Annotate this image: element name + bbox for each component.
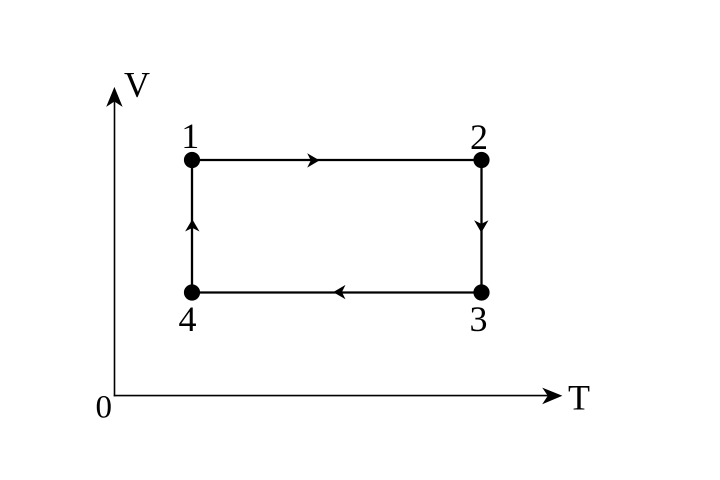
wire: process 4-1 (left edge) xyxy=(191,160,193,293)
node 4 (state point dot) xyxy=(184,284,200,300)
svg-text:2: 2 xyxy=(470,117,488,157)
node 2 (state point dot) xyxy=(473,152,489,168)
node 3 (state point dot) xyxy=(473,284,489,300)
arrow on 1-2 pointing right xyxy=(307,153,319,167)
wire: process 2-3 (right edge) xyxy=(480,160,482,293)
T axis (horizontal axis line) xyxy=(114,395,550,397)
svg-text:V: V xyxy=(124,65,150,105)
node 1 (state point dot) xyxy=(184,152,200,168)
svg-text:1: 1 xyxy=(181,116,199,156)
arrow on 4-1 pointing up xyxy=(185,219,199,231)
wire: process 1-2 (top edge) xyxy=(192,159,482,161)
V axis (vertical axis line) xyxy=(114,94,116,396)
svg-text:T: T xyxy=(568,377,590,417)
svg-text:0: 0 xyxy=(96,389,113,425)
arrow on 2-3 pointing down xyxy=(474,220,488,232)
V axis arrowhead xyxy=(106,87,122,107)
wire: process 3-4 (bottom edge) xyxy=(192,291,482,293)
arrow on 3-4 pointing left xyxy=(333,285,345,299)
svg-text:4: 4 xyxy=(179,299,197,339)
svg-text:3: 3 xyxy=(470,299,488,339)
T axis arrowhead xyxy=(542,388,562,405)
